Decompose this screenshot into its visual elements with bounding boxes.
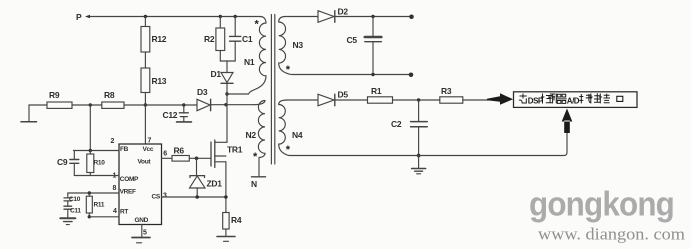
glyph 转 — [579, 94, 592, 103]
wire D1 cathode down to drain — [226, 83, 227, 142]
svg-text:D3: D3 — [197, 87, 208, 97]
svg-text:*: * — [286, 144, 291, 156]
wire R8 to D3 — [124, 104, 197, 106]
node junction gate / ZD1 — [195, 157, 199, 161]
transformer winding N1 — [249, 17, 267, 95]
node junction C5 tap — [371, 15, 374, 18]
resistor R11 — [86, 193, 105, 217]
node junction source/R4 — [224, 195, 228, 199]
wire secondary return / feedback run — [289, 133, 567, 156]
node junction mid rail / Vcc feed — [144, 103, 147, 106]
wire D2 to terminal — [335, 16, 412, 18]
transformer winding N4 — [279, 100, 289, 156]
resistor R8 — [102, 90, 124, 108]
resistor R2 — [204, 17, 225, 51]
svg-text:N: N — [251, 179, 257, 189]
svg-text:R11: R11 — [94, 202, 105, 209]
wire R13 bottom to rail — [144, 93, 146, 106]
glyph 器 — [557, 94, 567, 103]
svg-text:CS: CS — [152, 194, 161, 201]
svg-text:C11: C11 — [70, 208, 81, 215]
svg-text:RT: RT — [120, 209, 128, 216]
glyph 接 — [599, 94, 610, 104]
svg-text:N4: N4 — [292, 130, 303, 140]
svg-text:N3: N3 — [293, 40, 304, 50]
transformer winding N2 — [253, 101, 265, 158]
svg-text:C9: C9 — [57, 157, 68, 167]
node junction drain net — [224, 103, 227, 106]
svg-text:R2: R2 — [204, 34, 215, 44]
ground (C10/C11 chain) — [60, 218, 75, 224]
ground (R4 bottom) — [217, 229, 235, 241]
glyph 口 — [617, 96, 623, 101]
resistor R12 — [141, 17, 167, 53]
svg-text:C2: C2 — [391, 119, 402, 129]
capacitor C1 — [230, 17, 253, 62]
wire Vout pin to R6 — [162, 157, 173, 159]
node junction C12 tap — [182, 103, 185, 106]
resistor R10 — [87, 151, 105, 176]
svg-text:VREF: VREF — [120, 189, 136, 196]
transformer winding N3 — [279, 17, 288, 74]
ground (IC) — [132, 238, 150, 243]
svg-text:3: 3 — [163, 193, 167, 200]
resistor R9 — [47, 90, 72, 108]
wire join to D1 — [226, 61, 228, 73]
node junction ZD1 bottom — [195, 195, 199, 199]
wire R3 to arrow — [463, 99, 489, 101]
capacitor C2 — [391, 100, 427, 156]
node junction FB — [89, 149, 92, 152]
svg-text:4: 4 — [113, 208, 117, 215]
capacitor C5 — [347, 17, 382, 75]
wire D3 cathode to drain node and N2 top — [211, 104, 253, 106]
svg-text:gongkong: gongkong — [529, 186, 674, 224]
wire N3 bottom rail — [288, 74, 412, 75]
wire left rail — [29, 104, 47, 106]
svg-text:2: 2 — [111, 138, 115, 145]
capacitor C11 — [64, 206, 81, 217]
wire N2 bottom to N terminal — [258, 158, 260, 177]
wire COMP network bottom — [74, 175, 119, 177]
svg-text:R3: R3 — [441, 86, 452, 96]
svg-text:N1: N1 — [244, 57, 255, 67]
wire N3 top to D2 — [286, 16, 319, 18]
node P (input rail label) — [76, 12, 90, 22]
wire R9 to R8 — [72, 104, 102, 106]
glyph 控 — [541, 94, 552, 104]
svg-text:R13: R13 — [152, 76, 167, 86]
wire snubber join — [220, 51, 235, 62]
svg-text:TR1: TR1 — [227, 145, 243, 155]
node junction R11 bottom — [88, 215, 91, 218]
diode D5 — [318, 90, 348, 106]
glyph 换 — [589, 93, 600, 103]
wire N1 bottom — [227, 93, 249, 95]
node junction FB divider — [89, 103, 92, 106]
svg-text:www. diangon. com: www. diangon. com — [538, 225, 685, 244]
svg-text:C1: C1 — [242, 34, 253, 44]
svg-text:Vcc: Vcc — [143, 146, 154, 153]
svg-text:R4: R4 — [231, 215, 242, 225]
wire N4 top to D5 — [287, 99, 318, 101]
svg-text:FB: FB — [120, 146, 129, 153]
node junction R12 top — [144, 15, 147, 18]
wire signal arrow into DSP box — [487, 93, 513, 105]
svg-text:D2: D2 — [338, 7, 349, 17]
wire FB network top — [74, 150, 120, 152]
capacitor C12 — [163, 105, 192, 122]
svg-text:R10: R10 — [94, 160, 106, 167]
capacitor C10 — [64, 193, 81, 206]
node junction C1 top — [234, 15, 237, 18]
svg-text:D5: D5 — [338, 90, 349, 100]
ground (left stub) — [21, 105, 37, 122]
node output terminal + — [409, 14, 414, 19]
wire D5 to R1 — [335, 99, 368, 101]
wire GND pin 5 — [141, 225, 143, 237]
svg-text:6: 6 — [163, 151, 167, 158]
resistor R13 — [141, 68, 167, 93]
svg-text:DSP: DSP — [528, 96, 544, 105]
svg-text:*: * — [253, 151, 258, 163]
svg-text:P: P — [76, 12, 82, 22]
svg-text:N2: N2 — [246, 130, 257, 140]
node junction N1 bottom — [225, 92, 228, 95]
ground (below C2) — [412, 156, 426, 174]
svg-text:8: 8 — [113, 185, 117, 192]
svg-text:R8: R8 — [104, 90, 115, 100]
wire divider node down to FB network — [89, 105, 91, 151]
svg-text:R9: R9 — [49, 90, 60, 100]
svg-text:C5: C5 — [347, 35, 358, 45]
node junction C2 tap — [417, 98, 420, 101]
node junction VREF — [88, 191, 91, 194]
zener diode ZD1 — [190, 158, 223, 197]
glyph 制 — [550, 94, 557, 104]
IC U1 PWM controller box — [119, 144, 162, 225]
capacitor C9 — [57, 151, 79, 176]
svg-text:ZD1: ZD1 — [207, 179, 223, 189]
transistor Q1 TR1 MOSFET — [211, 140, 243, 168]
resistor R6 — [172, 146, 189, 162]
svg-text:D1: D1 — [211, 69, 222, 79]
wire CS line — [162, 196, 226, 198]
glyph 去 — [519, 94, 527, 104]
svg-text:Vout: Vout — [138, 159, 152, 166]
svg-text:7: 7 — [148, 138, 152, 145]
node junction C5 bottom — [371, 73, 374, 76]
wire R6 to gate — [189, 157, 211, 159]
svg-text:5: 5 — [143, 230, 147, 237]
wire source down to CS node — [225, 162, 227, 213]
svg-text:GND: GND — [135, 217, 149, 224]
svg-text:R12: R12 — [152, 34, 167, 44]
svg-text:*: * — [255, 19, 260, 31]
svg-text:C10: C10 — [69, 196, 81, 203]
node junction R2 top — [219, 15, 222, 18]
wire RT pin — [89, 216, 119, 218]
diode D1 — [211, 69, 234, 83]
transformer core — [271, 15, 274, 165]
svg-text:R6: R6 — [174, 146, 185, 156]
node output terminal - — [409, 73, 414, 78]
resistor R1 — [368, 86, 393, 103]
wire arrow up into DSP box — [562, 109, 573, 134]
resistor R3 — [440, 86, 463, 103]
resistor R4 — [223, 213, 242, 230]
wire R1 to R3 — [393, 99, 440, 101]
DSP interface box — [514, 92, 638, 108]
wire R12 to R13 — [144, 52, 146, 68]
wire Vcc feed to pin 7 — [144, 105, 146, 144]
node junction C2 bottom / return — [417, 154, 421, 158]
diode D3 — [197, 87, 211, 111]
svg-text:A/D: A/D — [567, 96, 580, 105]
diode D2 — [318, 7, 348, 23]
DSP box label 去DSP控制器A/D转换接口 (pseudo CJK strokes + latin) — [519, 93, 623, 105]
wire VREF rail — [68, 192, 119, 194]
wire top rail y=16.5 — [90, 16, 260, 18]
svg-text:R1: R1 — [371, 86, 382, 96]
node N (primary return terminal) — [251, 177, 266, 189]
svg-text:C12: C12 — [163, 110, 178, 120]
svg-text:COMP: COMP — [120, 176, 139, 183]
